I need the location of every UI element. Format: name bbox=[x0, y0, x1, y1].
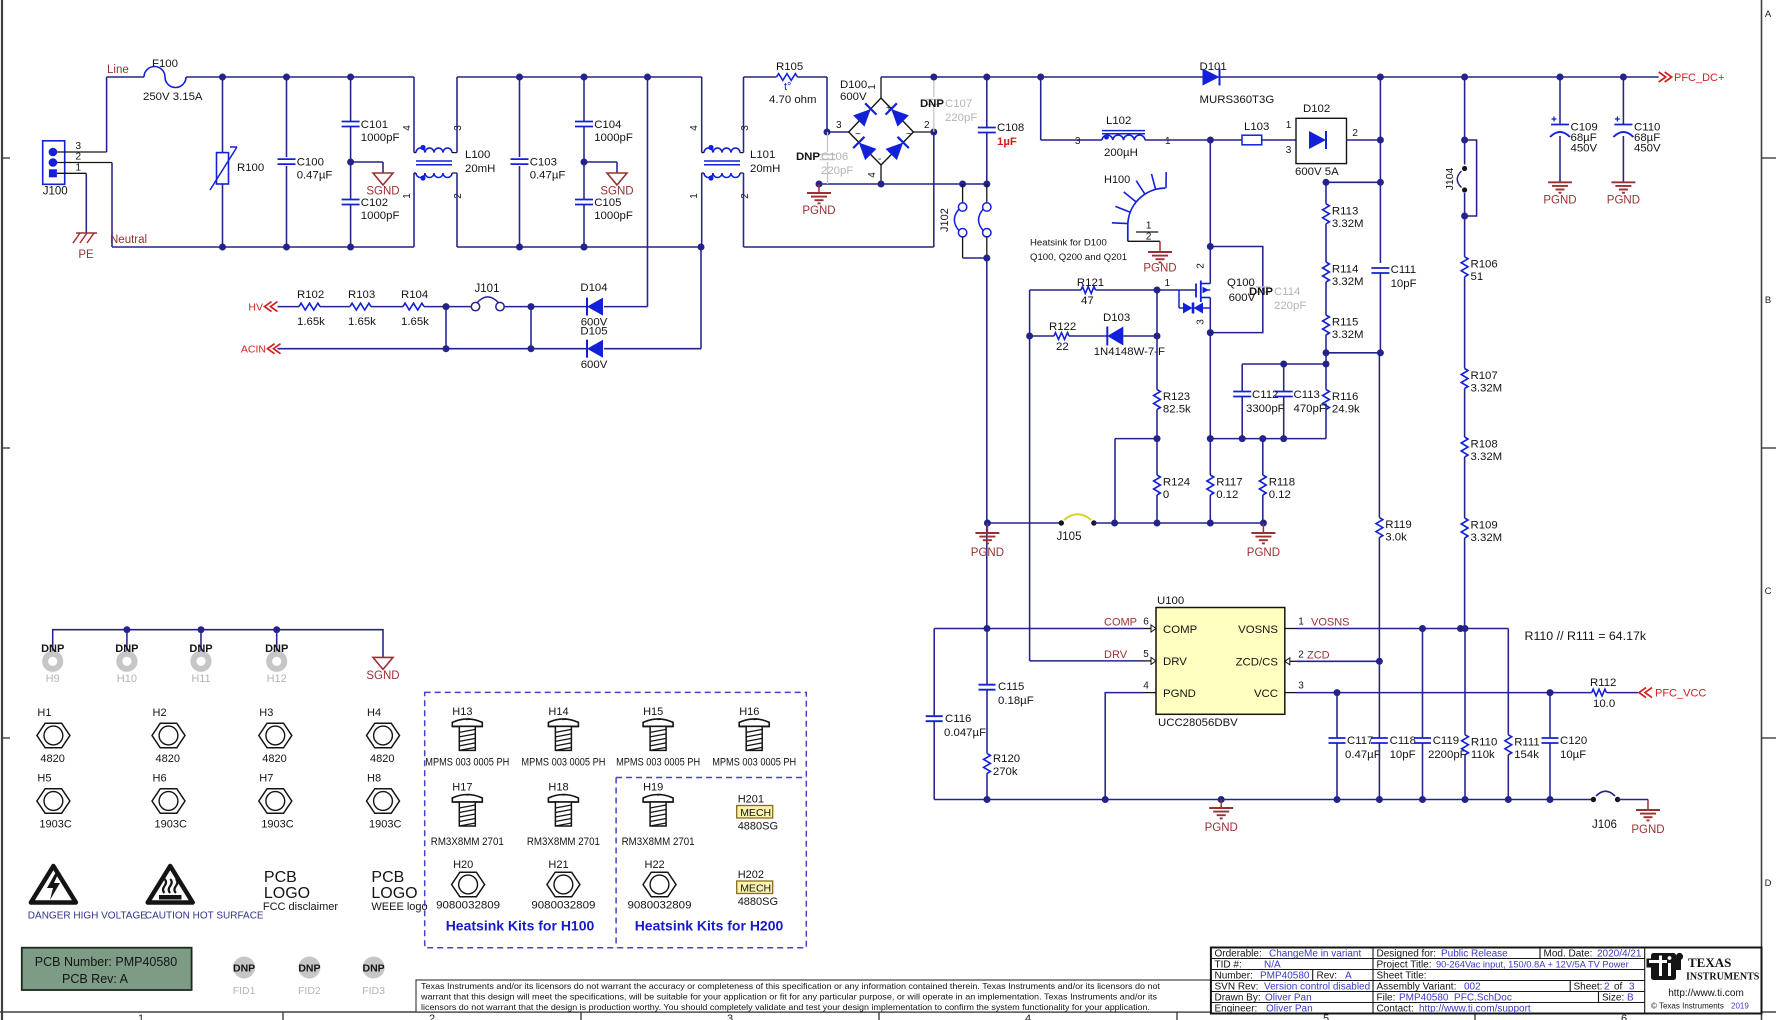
svg-text:Heatsink Kits for H200: Heatsink Kits for H200 bbox=[635, 918, 784, 934]
svg-text:PCB Rev: A: PCB Rev: A bbox=[62, 972, 129, 986]
svg-text:F100: F100 bbox=[152, 58, 178, 70]
svg-text:H17: H17 bbox=[452, 782, 472, 794]
svg-text:3: 3 bbox=[453, 125, 464, 131]
svg-text:2020/4/21: 2020/4/21 bbox=[1597, 949, 1642, 960]
svg-text:+: + bbox=[886, 103, 892, 114]
svg-text:3: 3 bbox=[76, 141, 82, 152]
svg-text:3.32M: 3.32M bbox=[1471, 383, 1503, 395]
svg-text:RM3X8MM 2701: RM3X8MM 2701 bbox=[527, 836, 600, 848]
svg-text:450V: 450V bbox=[1634, 143, 1661, 155]
svg-text:Line: Line bbox=[107, 64, 129, 76]
svg-text:~: ~ bbox=[855, 129, 861, 140]
svg-text:1: 1 bbox=[1165, 136, 1171, 147]
svg-text:9080032809: 9080032809 bbox=[531, 900, 595, 912]
svg-text:A: A bbox=[1345, 971, 1352, 982]
svg-text:1000pF: 1000pF bbox=[594, 210, 633, 222]
svg-text:-: - bbox=[878, 154, 881, 165]
svg-text:Texas Instruments and/or its l: Texas Instruments and/or its licensors d… bbox=[421, 981, 1161, 991]
svg-text:Heatsink for D100: Heatsink for D100 bbox=[1030, 238, 1107, 249]
svg-text:110k: 110k bbox=[1471, 749, 1495, 761]
svg-text:1.65k: 1.65k bbox=[348, 316, 376, 328]
svg-text:1000pF: 1000pF bbox=[594, 132, 633, 144]
svg-text:PMP40580_PFC.SchDoc: PMP40580_PFC.SchDoc bbox=[1399, 993, 1512, 1004]
svg-text:H16: H16 bbox=[739, 706, 759, 718]
svg-text:4820: 4820 bbox=[156, 753, 180, 765]
svg-text:4: 4 bbox=[689, 125, 700, 131]
svg-text:002: 002 bbox=[1464, 982, 1481, 993]
svg-text:220pF: 220pF bbox=[821, 165, 853, 177]
svg-text:1903C: 1903C bbox=[155, 819, 187, 831]
svg-text:PCB: PCB bbox=[264, 869, 297, 886]
svg-text:Designed for:: Designed for: bbox=[1377, 949, 1436, 960]
svg-text:UCC28056DBV: UCC28056DBV bbox=[1158, 717, 1238, 729]
svg-text:L102: L102 bbox=[1106, 115, 1131, 127]
svg-text:DNP: DNP bbox=[298, 963, 320, 975]
svg-text:Oliver Pan: Oliver Pan bbox=[1265, 993, 1312, 1004]
svg-text:t°: t° bbox=[784, 81, 791, 93]
svg-text:R100: R100 bbox=[237, 162, 264, 174]
svg-text:CAUTION HOT SURFACE: CAUTION HOT SURFACE bbox=[145, 911, 264, 922]
svg-text:0.047µF: 0.047µF bbox=[944, 727, 986, 739]
svg-text:H3: H3 bbox=[259, 707, 273, 719]
svg-text:B: B bbox=[1765, 295, 1771, 306]
svg-text:Q100, Q200 and Q201: Q100, Q200 and Q201 bbox=[1030, 252, 1127, 263]
svg-text:R122: R122 bbox=[1049, 321, 1076, 333]
svg-text:4: 4 bbox=[1143, 681, 1149, 692]
svg-text:220pF: 220pF bbox=[945, 112, 977, 124]
svg-text:DNP: DNP bbox=[115, 643, 138, 655]
svg-text:2: 2 bbox=[1352, 128, 1358, 139]
svg-text:H100: H100 bbox=[1104, 174, 1130, 186]
svg-text:C: C bbox=[1765, 586, 1772, 597]
svg-text:600V: 600V bbox=[840, 91, 867, 103]
svg-text:DNP: DNP bbox=[1249, 286, 1273, 298]
svg-text:J101: J101 bbox=[475, 283, 500, 295]
svg-text:3: 3 bbox=[1075, 136, 1081, 147]
svg-text:H13: H13 bbox=[452, 706, 472, 718]
svg-text:H2: H2 bbox=[153, 707, 167, 719]
svg-text:Size:: Size: bbox=[1602, 993, 1624, 1004]
svg-text:J100: J100 bbox=[43, 186, 68, 198]
svg-text:DNP: DNP bbox=[265, 643, 288, 655]
svg-text:J102: J102 bbox=[939, 208, 951, 232]
svg-text:10.0: 10.0 bbox=[1593, 698, 1615, 710]
svg-text:DNP: DNP bbox=[233, 963, 255, 975]
svg-text:R104: R104 bbox=[401, 289, 428, 301]
svg-text:154k: 154k bbox=[1514, 749, 1539, 761]
svg-text:R108: R108 bbox=[1471, 439, 1498, 451]
svg-text:1.65k: 1.65k bbox=[401, 316, 429, 328]
svg-text:51: 51 bbox=[1471, 271, 1484, 283]
svg-text:2: 2 bbox=[1298, 649, 1304, 660]
svg-text:2019: 2019 bbox=[1731, 1002, 1749, 1011]
svg-text:RM3X8MM 2701: RM3X8MM 2701 bbox=[622, 836, 695, 848]
svg-text:A: A bbox=[1765, 9, 1772, 20]
svg-text:H4: H4 bbox=[367, 707, 381, 719]
svg-text:H14: H14 bbox=[548, 706, 568, 718]
svg-text:0.47µF: 0.47µF bbox=[297, 170, 333, 182]
svg-text:H15: H15 bbox=[643, 706, 663, 718]
svg-text:U100: U100 bbox=[1157, 595, 1184, 607]
svg-text:C116: C116 bbox=[945, 713, 971, 725]
svg-text:WEEE logo: WEEE logo bbox=[371, 901, 427, 913]
svg-text:TEXAS: TEXAS bbox=[1688, 955, 1731, 970]
svg-text:R119: R119 bbox=[1385, 519, 1411, 531]
svg-text:COMP: COMP bbox=[1163, 624, 1197, 636]
svg-text:3300pF: 3300pF bbox=[1246, 403, 1285, 415]
svg-text:LOGO: LOGO bbox=[264, 885, 310, 902]
svg-text:Sheet Title:: Sheet Title: bbox=[1377, 971, 1427, 982]
svg-text:ZCD/CS: ZCD/CS bbox=[1236, 657, 1279, 669]
svg-text:47: 47 bbox=[1081, 295, 1094, 307]
svg-text:C104: C104 bbox=[594, 119, 621, 131]
svg-text:INSTRUMENTS: INSTRUMENTS bbox=[1686, 972, 1760, 983]
svg-text:Orderable:: Orderable: bbox=[1215, 949, 1262, 960]
svg-text:ACIN: ACIN bbox=[241, 344, 266, 356]
svg-text:R118: R118 bbox=[1269, 477, 1295, 489]
svg-text:MPMS 003 0005 PH: MPMS 003 0005 PH bbox=[616, 757, 700, 769]
svg-text:ZCD: ZCD bbox=[1307, 650, 1330, 662]
svg-text:1: 1 bbox=[1165, 278, 1171, 289]
svg-text:http://www.ti.com: http://www.ti.com bbox=[1668, 988, 1744, 999]
svg-text:1: 1 bbox=[138, 1013, 144, 1020]
svg-text:3: 3 bbox=[727, 1013, 733, 1020]
svg-text:PGND: PGND bbox=[802, 205, 835, 217]
svg-text:2: 2 bbox=[924, 120, 930, 131]
svg-text:TID #:: TID #: bbox=[1215, 960, 1242, 971]
svg-text:3: 3 bbox=[836, 120, 842, 131]
svg-text:1: 1 bbox=[1146, 221, 1152, 232]
svg-text:1: 1 bbox=[1286, 120, 1292, 131]
svg-text:D102: D102 bbox=[1303, 103, 1330, 115]
svg-text:MECH: MECH bbox=[740, 807, 771, 819]
svg-text:3.32M: 3.32M bbox=[1332, 218, 1364, 230]
svg-text:R123: R123 bbox=[1163, 391, 1190, 403]
svg-text:http://www.ti.com/support: http://www.ti.com/support bbox=[1419, 1004, 1531, 1015]
svg-text:PGND: PGND bbox=[1247, 547, 1280, 559]
svg-text:4880SG: 4880SG bbox=[738, 821, 778, 833]
svg-text:© Texas Instruments: © Texas Instruments bbox=[1651, 1002, 1724, 1011]
svg-text:Project Title:: Project Title: bbox=[1377, 960, 1432, 971]
svg-text:PGND: PGND bbox=[1163, 688, 1196, 700]
svg-text:4.70 ohm: 4.70 ohm bbox=[769, 94, 817, 106]
svg-text:Drawn By:: Drawn By: bbox=[1215, 993, 1261, 1004]
svg-text:Number:: Number: bbox=[1215, 971, 1253, 982]
svg-text:C112: C112 bbox=[1252, 389, 1278, 401]
svg-text:C117: C117 bbox=[1347, 735, 1373, 747]
svg-text:H10: H10 bbox=[117, 673, 137, 685]
svg-text:H201: H201 bbox=[738, 794, 764, 806]
svg-text:C100: C100 bbox=[297, 157, 324, 169]
svg-text:4820: 4820 bbox=[262, 753, 286, 765]
svg-text:5: 5 bbox=[1143, 649, 1149, 660]
svg-text:4820: 4820 bbox=[40, 753, 64, 765]
svg-text:9080032809: 9080032809 bbox=[628, 900, 692, 912]
svg-text:SGND: SGND bbox=[366, 670, 399, 682]
svg-text:PGND: PGND bbox=[971, 547, 1004, 559]
svg-text:1903C: 1903C bbox=[39, 819, 71, 831]
svg-text:R121: R121 bbox=[1077, 277, 1104, 289]
svg-text:R109: R109 bbox=[1471, 520, 1498, 532]
svg-text:2: 2 bbox=[740, 193, 751, 199]
svg-text:C101: C101 bbox=[361, 119, 388, 131]
svg-text:L103: L103 bbox=[1244, 121, 1269, 133]
svg-text:3: 3 bbox=[1298, 681, 1304, 692]
svg-text:10pF: 10pF bbox=[1391, 278, 1417, 290]
svg-text:4: 4 bbox=[402, 125, 413, 131]
svg-text:C107: C107 bbox=[945, 98, 972, 110]
svg-text:H6: H6 bbox=[153, 773, 167, 785]
svg-text:H5: H5 bbox=[37, 773, 51, 785]
svg-text:C102: C102 bbox=[361, 197, 388, 209]
svg-text:~: ~ bbox=[906, 129, 912, 140]
svg-text:warrant that this design will: warrant that this design will meet the s… bbox=[420, 992, 1157, 1002]
svg-text:90-264Vac input, 150/0.8A + 12: 90-264Vac input, 150/0.8A + 12V/5A TV Po… bbox=[1436, 960, 1629, 970]
svg-text:SVN Rev:: SVN Rev: bbox=[1215, 982, 1259, 993]
svg-text:200µH: 200µH bbox=[1104, 147, 1138, 159]
svg-text:C103: C103 bbox=[530, 157, 557, 169]
svg-text:1000pF: 1000pF bbox=[361, 132, 400, 144]
svg-text:H1: H1 bbox=[37, 707, 51, 719]
svg-text:H7: H7 bbox=[259, 773, 273, 785]
svg-text:1µF: 1µF bbox=[997, 136, 1017, 148]
svg-text:270k: 270k bbox=[993, 766, 1018, 778]
svg-text:LOGO: LOGO bbox=[371, 885, 417, 902]
svg-text:600V 5A: 600V 5A bbox=[1295, 166, 1339, 178]
svg-text:MPMS 003 0005 PH: MPMS 003 0005 PH bbox=[425, 757, 509, 769]
svg-text:H11: H11 bbox=[191, 673, 210, 685]
svg-text:H8: H8 bbox=[367, 773, 381, 785]
svg-text:0.47µF: 0.47µF bbox=[1345, 749, 1381, 761]
svg-text:10pF: 10pF bbox=[1390, 749, 1416, 761]
svg-text:0.18µF: 0.18µF bbox=[998, 695, 1034, 707]
svg-text:R120: R120 bbox=[993, 753, 1020, 765]
svg-text:Engineer:: Engineer: bbox=[1215, 1004, 1258, 1015]
svg-text:3.32M: 3.32M bbox=[1471, 532, 1503, 544]
svg-text:H18: H18 bbox=[548, 782, 568, 794]
svg-text:R103: R103 bbox=[348, 289, 375, 301]
svg-text:6: 6 bbox=[1143, 617, 1149, 628]
svg-text:1N4148W-7-F: 1N4148W-7-F bbox=[1094, 346, 1165, 358]
svg-text:82.5k: 82.5k bbox=[1163, 404, 1191, 416]
svg-text:4820: 4820 bbox=[370, 753, 394, 765]
svg-text:R111: R111 bbox=[1514, 736, 1540, 748]
svg-text:2: 2 bbox=[453, 193, 464, 199]
svg-text:R116: R116 bbox=[1332, 391, 1358, 403]
svg-text:C119: C119 bbox=[1433, 735, 1459, 747]
svg-text:R110 // R111 = 64.17k: R110 // R111 = 64.17k bbox=[1525, 629, 1647, 643]
svg-text:R112: R112 bbox=[1590, 677, 1616, 689]
svg-text:C120: C120 bbox=[1560, 735, 1587, 747]
svg-text:Rev:: Rev: bbox=[1317, 971, 1338, 982]
svg-text:20mH: 20mH bbox=[465, 163, 495, 175]
svg-text:H20: H20 bbox=[453, 859, 473, 871]
svg-text:ChangeMe in variant: ChangeMe in variant bbox=[1269, 949, 1361, 960]
svg-text:R114: R114 bbox=[1332, 264, 1358, 276]
svg-text:N/A: N/A bbox=[1264, 960, 1281, 971]
svg-text:Assembly Variant:: Assembly Variant: bbox=[1377, 982, 1457, 993]
svg-text:licensors do not warrant that: licensors do not warrant that the design… bbox=[421, 1002, 1150, 1012]
svg-text:Oliver Pan: Oliver Pan bbox=[1266, 1004, 1313, 1015]
svg-text:Version control disabled: Version control disabled bbox=[1264, 982, 1370, 993]
svg-text:VCC: VCC bbox=[1254, 688, 1278, 700]
svg-text:3.32M: 3.32M bbox=[1332, 276, 1364, 288]
svg-text:0.12: 0.12 bbox=[1269, 489, 1291, 501]
svg-text:FID2: FID2 bbox=[298, 985, 321, 997]
svg-text:3: 3 bbox=[1629, 982, 1635, 993]
svg-text:3.0k: 3.0k bbox=[1385, 532, 1407, 544]
svg-text:C108: C108 bbox=[997, 122, 1024, 134]
svg-text:2: 2 bbox=[76, 152, 82, 163]
svg-text:DNP: DNP bbox=[41, 643, 64, 655]
svg-text:4880SG: 4880SG bbox=[738, 896, 778, 908]
svg-text:3: 3 bbox=[1196, 319, 1207, 325]
svg-text:1: 1 bbox=[76, 162, 82, 173]
svg-text:PGND: PGND bbox=[1205, 822, 1238, 834]
svg-text:220pF: 220pF bbox=[1274, 300, 1306, 312]
svg-text:D100: D100 bbox=[840, 79, 867, 91]
svg-text:1903C: 1903C bbox=[369, 819, 401, 831]
svg-text:D105: D105 bbox=[580, 326, 607, 338]
svg-text:R117: R117 bbox=[1216, 477, 1242, 489]
svg-text:3: 3 bbox=[1286, 145, 1292, 156]
svg-text:R107: R107 bbox=[1471, 370, 1498, 382]
svg-text:450V: 450V bbox=[1571, 143, 1598, 155]
svg-text:Heatsink Kits for H100: Heatsink Kits for H100 bbox=[446, 918, 595, 934]
svg-text:3.32M: 3.32M bbox=[1471, 451, 1503, 463]
svg-text:H19: H19 bbox=[643, 782, 663, 794]
svg-text:MECH: MECH bbox=[740, 883, 771, 895]
svg-text:C115: C115 bbox=[998, 681, 1024, 693]
svg-text:Neutral: Neutral bbox=[110, 234, 147, 246]
svg-text:PGND: PGND bbox=[1543, 195, 1576, 207]
svg-text:C105: C105 bbox=[594, 197, 621, 209]
svg-text:10µF: 10µF bbox=[1560, 749, 1586, 761]
svg-text:FID1: FID1 bbox=[233, 985, 256, 997]
svg-text:R115: R115 bbox=[1332, 317, 1358, 329]
svg-text:R102: R102 bbox=[297, 289, 324, 301]
svg-text:9080032809: 9080032809 bbox=[436, 900, 500, 912]
svg-text:DRV: DRV bbox=[1104, 649, 1128, 661]
svg-text:20mH: 20mH bbox=[750, 163, 780, 175]
svg-text:D103: D103 bbox=[1103, 312, 1130, 324]
svg-text:22: 22 bbox=[1056, 341, 1069, 353]
svg-text:R113: R113 bbox=[1332, 205, 1358, 217]
svg-text:DNP: DNP bbox=[796, 151, 820, 163]
svg-text:DRV: DRV bbox=[1163, 656, 1187, 668]
svg-text:4: 4 bbox=[867, 172, 878, 178]
svg-text:2: 2 bbox=[1146, 231, 1152, 242]
svg-text:1: 1 bbox=[689, 193, 700, 199]
svg-text:470pF: 470pF bbox=[1294, 403, 1326, 415]
svg-text:R106: R106 bbox=[1471, 258, 1498, 270]
svg-text:DNP: DNP bbox=[920, 98, 944, 110]
svg-text:RM3X8MM 2701: RM3X8MM 2701 bbox=[431, 836, 504, 848]
svg-text:H9: H9 bbox=[46, 673, 60, 685]
svg-text:C106: C106 bbox=[821, 151, 848, 163]
svg-text:MPMS 003 0005 PH: MPMS 003 0005 PH bbox=[712, 757, 796, 769]
svg-text:L101: L101 bbox=[750, 149, 775, 161]
svg-text:File:: File: bbox=[1377, 993, 1396, 1004]
svg-text:1: 1 bbox=[867, 84, 878, 90]
svg-text:24.9k: 24.9k bbox=[1332, 404, 1360, 416]
svg-text:2: 2 bbox=[1604, 982, 1610, 993]
svg-text:DANGER HIGH VOLTAGE: DANGER HIGH VOLTAGE bbox=[28, 911, 147, 922]
svg-text:1.65k: 1.65k bbox=[297, 316, 325, 328]
svg-text:PCB Number: PMP40580: PCB Number: PMP40580 bbox=[35, 955, 177, 969]
svg-text:Sheet:: Sheet: bbox=[1574, 982, 1603, 993]
svg-text:C118: C118 bbox=[1390, 735, 1416, 747]
svg-text:0.12: 0.12 bbox=[1216, 489, 1238, 501]
svg-text:C114: C114 bbox=[1274, 286, 1300, 298]
svg-text:1903C: 1903C bbox=[261, 819, 293, 831]
svg-text:J105: J105 bbox=[1057, 531, 1082, 543]
svg-text:SGND: SGND bbox=[366, 186, 399, 198]
svg-text:250V 3.15A: 250V 3.15A bbox=[143, 91, 203, 103]
svg-text:PE: PE bbox=[78, 249, 94, 261]
svg-text:C111: C111 bbox=[1391, 264, 1417, 276]
svg-text:600V: 600V bbox=[581, 359, 608, 371]
svg-text:H22: H22 bbox=[645, 859, 665, 871]
svg-text:R124: R124 bbox=[1163, 477, 1190, 489]
svg-text:B: B bbox=[1627, 993, 1634, 1004]
svg-text:FID3: FID3 bbox=[362, 985, 385, 997]
svg-text:VOSNS: VOSNS bbox=[1311, 617, 1350, 629]
svg-text:H21: H21 bbox=[548, 859, 568, 871]
svg-text:3.32M: 3.32M bbox=[1332, 329, 1364, 341]
svg-text:PCB: PCB bbox=[371, 869, 404, 886]
svg-text:COMP: COMP bbox=[1104, 617, 1137, 629]
svg-text:FCC disclaimer: FCC disclaimer bbox=[263, 901, 339, 913]
svg-text:0: 0 bbox=[1163, 489, 1169, 501]
svg-text:PFC_DC+: PFC_DC+ bbox=[1674, 72, 1724, 84]
svg-text:PGND: PGND bbox=[1631, 824, 1664, 836]
svg-text:2200pF: 2200pF bbox=[1428, 749, 1467, 761]
svg-text:VOSNS: VOSNS bbox=[1238, 624, 1278, 636]
svg-text:C113: C113 bbox=[1294, 389, 1320, 401]
svg-text:PFC_VCC: PFC_VCC bbox=[1655, 688, 1706, 700]
svg-text:H202: H202 bbox=[738, 869, 764, 881]
svg-text:D: D bbox=[1765, 878, 1772, 889]
svg-text:MURS360T3G: MURS360T3G bbox=[1200, 94, 1275, 106]
svg-text:R110: R110 bbox=[1471, 736, 1497, 748]
svg-text:1: 1 bbox=[1298, 617, 1304, 628]
svg-text:1000pF: 1000pF bbox=[361, 210, 400, 222]
svg-text:R105: R105 bbox=[776, 61, 803, 73]
svg-text:PGND: PGND bbox=[1607, 195, 1640, 207]
svg-text:PGND: PGND bbox=[1143, 263, 1176, 275]
svg-text:H12: H12 bbox=[267, 673, 287, 685]
svg-text:Contact:: Contact: bbox=[1377, 1004, 1414, 1015]
svg-text:Public Release: Public Release bbox=[1441, 949, 1508, 960]
svg-text:DNP: DNP bbox=[363, 963, 385, 975]
svg-text:SGND: SGND bbox=[600, 186, 633, 198]
svg-text:2: 2 bbox=[429, 1013, 435, 1020]
svg-text:D104: D104 bbox=[580, 282, 607, 294]
svg-text:MPMS 003 0005 PH: MPMS 003 0005 PH bbox=[521, 757, 605, 769]
svg-text:PMP40580: PMP40580 bbox=[1260, 971, 1310, 982]
svg-text:1: 1 bbox=[402, 193, 413, 199]
svg-text:4: 4 bbox=[1025, 1013, 1031, 1020]
svg-text:3: 3 bbox=[740, 125, 751, 131]
svg-text:J104: J104 bbox=[1444, 167, 1456, 190]
svg-text:HV: HV bbox=[248, 302, 263, 314]
svg-text:0.47µF: 0.47µF bbox=[530, 170, 566, 182]
svg-text:of: of bbox=[1614, 982, 1623, 993]
svg-text:DNP: DNP bbox=[189, 643, 212, 655]
svg-text:L100: L100 bbox=[465, 149, 490, 161]
svg-text:J106: J106 bbox=[1592, 819, 1617, 831]
